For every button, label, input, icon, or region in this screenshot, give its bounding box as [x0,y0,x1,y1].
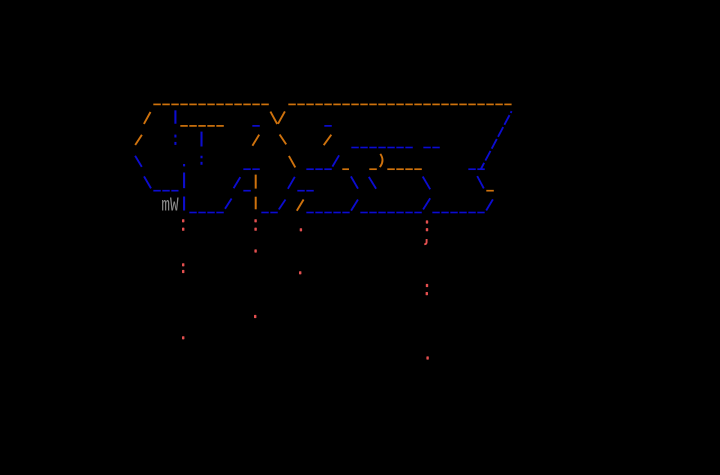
blue vertical column B3 x=175 [174,110,176,124]
red marker M11 [299,271,301,274]
orange rising dash O12 [297,200,304,211]
blue dash B2 second level [324,125,332,127]
red marker M4 [182,270,184,273]
red marker M1 [182,219,184,222]
svg-text:mW: mW [161,195,179,217]
red marker M15 [426,292,428,295]
red marker M2 [182,228,184,231]
blue dash B1 second level [252,125,259,127]
red marker M6 [254,219,256,222]
orange dip O2 rising arm [278,111,285,123]
orange dip O2 falling arm [270,112,277,124]
orange vertical drop O9 [255,175,257,189]
blue rising diagonal B10 [225,199,232,209]
orange run O10b third level [369,168,377,170]
blue long rising diagonal B27 [481,111,512,169]
red marker M14 [426,284,428,287]
blue run B23b bottom level [432,212,440,214]
blue rising dash B22 [423,198,430,209]
orange rising dash O8 [324,135,332,146]
orange rising dash O7 [252,135,259,146]
orange run O3 top level right [288,103,296,105]
blue rising dash B26 [486,199,493,210]
blue vertical column B5 x=201 [200,132,202,147]
blue run B8 fourth level [153,190,161,192]
blue run B9 bottom level [189,212,197,214]
orange dash O14 fourth level [486,190,494,192]
red marker M3 [182,263,184,266]
blue falling dash B25 [477,176,484,188]
red marker J-hook [424,239,426,244]
orange run O10c third level [387,168,395,170]
orange right-paren arc O11 [380,154,383,167]
red marker M10 [300,228,302,231]
blue rising diagonal B12 [279,200,286,210]
red marker M8 [254,249,256,252]
orange run O5 second level [180,125,188,127]
orange run O10a third level [342,168,349,170]
blue falling dash B21 [423,177,431,190]
blue run B17 bottom level [261,212,269,214]
blue rising dash B14 [332,155,339,166]
red marker M9 [254,315,256,318]
red marker M13 [426,228,428,231]
orange rising diagonal O4 [135,135,142,145]
blue falling diagonal B7 [135,156,142,167]
orange falling diagonal O6 [280,135,287,145]
blue run B13 third level [306,168,314,170]
blue run B19 bottom level [306,212,314,214]
red marker M5 [182,336,184,339]
blue run B11 third level [243,168,251,170]
blue dash B16 fourth level [243,190,251,192]
blue run B23a bottom level [360,212,368,214]
orange run O1 top level [153,103,161,105]
blue run B24 third level [468,168,476,170]
blue run B18 fourth level [297,190,305,192]
blue run B15b second-from-top level [423,147,431,149]
red marker M16 [426,356,428,359]
blue falling dash Rdesc [369,177,376,189]
red marker M7 [254,228,256,231]
blue falling dash Ldesc [351,176,358,188]
red marker M12 [426,220,428,223]
blue rising dash Aasc [351,200,358,211]
blue vertical column B6 x=184 [183,164,185,166]
blue run B15a second-from-top level [351,147,359,149]
